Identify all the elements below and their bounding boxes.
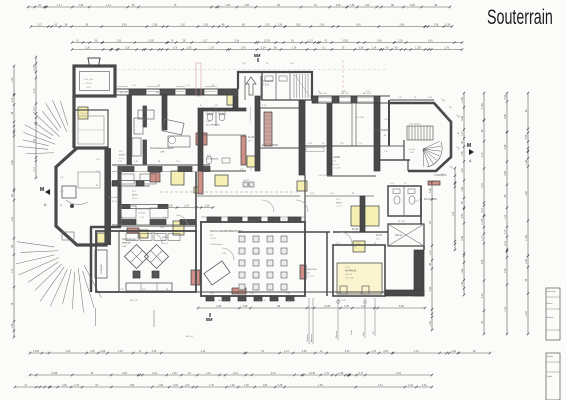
svg-text:2,14: 2,14	[233, 372, 238, 375]
svg-text:4,44: 4,44	[422, 384, 427, 387]
svg-text:2,14: 2,14	[261, 46, 266, 49]
svg-text:1,30: 1,30	[525, 311, 528, 316]
svg-text:1,17: 1,17	[380, 293, 384, 295]
svg-text:3,8 m²: 3,8 m²	[162, 242, 168, 245]
svg-text:2,17: 2,17	[481, 207, 484, 212]
svg-text:LH 2,60: LH 2,60	[138, 213, 146, 215]
svg-text:1,20: 1,20	[451, 350, 456, 353]
svg-text:1,63: 1,63	[163, 217, 167, 219]
svg-text:1,17: 1,17	[461, 131, 464, 136]
svg-text:2,14: 2,14	[33, 88, 36, 93]
svg-text:1,20: 1,20	[85, 46, 90, 49]
svg-text:1,63: 1,63	[78, 4, 83, 7]
svg-text:5,36: 5,36	[410, 4, 415, 7]
svg-text:2,17: 2,17	[336, 243, 340, 245]
svg-text:2,41: 2,41	[185, 384, 190, 387]
svg-text:63: 63	[360, 293, 362, 295]
svg-text:Nachbar: Nachbar	[547, 355, 554, 358]
svg-text:M: M	[467, 143, 471, 149]
svg-text:1,14: 1,14	[414, 350, 419, 353]
svg-text:36: 36	[60, 205, 62, 207]
svg-text:1,38: 1,38	[318, 384, 323, 387]
svg-text:Vertriebsaussendienst: Vertriebsaussendienst	[150, 147, 174, 150]
svg-text:1,63: 1,63	[461, 186, 464, 191]
svg-text:20 Personen: 20 Personen	[210, 243, 223, 246]
svg-text:1,20: 1,20	[96, 171, 100, 173]
svg-text:1,30: 1,30	[125, 46, 130, 49]
svg-text:7,5 %: 7,5 %	[263, 84, 270, 87]
svg-text:2,41: 2,41	[230, 219, 234, 221]
svg-text:Lieferschein: Lieferschein	[547, 290, 556, 293]
svg-text:L.H. 2,69: L.H. 2,69	[318, 175, 327, 177]
svg-text:BÜRO: BÜRO	[119, 154, 126, 157]
svg-text:3,38: 3,38	[11, 160, 14, 165]
svg-text:3,38: 3,38	[399, 23, 404, 26]
svg-text:2,17: 2,17	[504, 229, 507, 234]
svg-text:63: 63	[228, 105, 230, 107]
svg-text:1,14: 1,14	[342, 91, 346, 93]
svg-text:1,30: 1,30	[525, 159, 528, 164]
svg-text:5,36: 5,36	[461, 115, 464, 120]
svg-text:1,25: 1,25	[429, 321, 432, 326]
svg-text:1,30: 1,30	[504, 268, 507, 273]
svg-text:3,135: 3,135	[324, 305, 331, 308]
svg-text:2,36: 2,36	[153, 23, 158, 26]
svg-text:1,17: 1,17	[358, 143, 362, 145]
svg-text:1,14: 1,14	[106, 4, 111, 7]
svg-text:3,38: 3,38	[122, 23, 127, 26]
svg-text:Poststelle/22: Poststelle/22	[108, 196, 121, 199]
svg-text:2,17: 2,17	[60, 191, 64, 193]
svg-text:76: 76	[404, 183, 406, 185]
svg-text:1,25: 1,25	[187, 46, 192, 49]
svg-text:1,14: 1,14	[206, 372, 211, 375]
svg-text:1,25: 1,25	[152, 350, 157, 353]
svg-text:1,135: 1,135	[33, 64, 36, 71]
svg-text:2,14: 2,14	[152, 372, 157, 375]
svg-text:2,02: 2,02	[398, 39, 403, 42]
svg-text:2,17: 2,17	[33, 106, 36, 111]
svg-text:2,36: 2,36	[277, 23, 282, 26]
svg-text:HEIZUNG: HEIZUNG	[307, 269, 317, 271]
svg-text:3,135: 3,135	[309, 372, 316, 375]
svg-text:1,17: 1,17	[308, 39, 313, 42]
svg-text:FLUR/TREPPE: FLUR/TREPPE	[374, 130, 390, 132]
svg-text:1,14: 1,14	[284, 350, 289, 353]
svg-text:1,38 + 1,63: 1,38 + 1,63	[246, 221, 257, 223]
svg-text:1,25: 1,25	[225, 4, 230, 7]
svg-text:VORRAUM: VORRAUM	[434, 174, 446, 177]
svg-text:1,25: 1,25	[356, 243, 360, 245]
svg-text:2 AP: 2 AP	[160, 151, 165, 154]
svg-text:2,36: 2,36	[461, 235, 464, 240]
svg-text:BM: BM	[206, 317, 213, 322]
svg-text:1,51: 1,51	[117, 39, 122, 42]
svg-text:2,14: 2,14	[481, 152, 484, 157]
svg-text:1,38: 1,38	[428, 97, 432, 99]
svg-text:WC-HERREN: WC-HERREN	[206, 125, 220, 127]
svg-text:1,76: 1,76	[292, 46, 297, 49]
svg-text:1,76: 1,76	[209, 46, 214, 49]
svg-text:Architekt: Architekt	[547, 316, 554, 319]
svg-text:63: 63	[60, 163, 62, 165]
svg-text:1,76: 1,76	[461, 151, 464, 156]
svg-text:1,20: 1,20	[330, 193, 334, 195]
svg-text:3,135: 3,135	[481, 103, 484, 110]
svg-text:1,38: 1,38	[339, 372, 344, 375]
svg-text:4,44: 4,44	[271, 372, 276, 375]
svg-text:63: 63	[212, 85, 214, 87]
svg-text:Grün: Grün	[350, 329, 353, 335]
svg-text:2,63: 2,63	[310, 193, 314, 195]
svg-text:BH 1,17: BH 1,17	[156, 92, 164, 94]
svg-text:1,51: 1,51	[390, 183, 394, 185]
svg-text:4,44: 4,44	[452, 211, 455, 216]
svg-text:1,30: 1,30	[244, 384, 249, 387]
svg-text:3,38: 3,38	[244, 4, 249, 7]
svg-text:2,26: 2,26	[366, 91, 370, 93]
svg-text:2,02: 2,02	[429, 286, 432, 291]
svg-text:88: 88	[384, 135, 386, 137]
svg-text:3. Führerschein: 3. Führerschein	[249, 106, 252, 122]
svg-text:2,02: 2,02	[340, 143, 344, 145]
svg-text:1,63: 1,63	[525, 191, 528, 196]
svg-text:5,36: 5,36	[446, 23, 451, 26]
svg-text:1,25: 1,25	[214, 105, 218, 107]
svg-text:1,25: 1,25	[338, 293, 342, 295]
svg-text:1,38: 1,38	[172, 372, 177, 375]
svg-text:3,04: 3,04	[210, 293, 214, 295]
svg-text:WM/TR: WM/TR	[243, 180, 250, 182]
svg-text:1,38: 1,38	[11, 323, 14, 328]
svg-text:L.H. 2,69: L.H. 2,69	[332, 168, 341, 170]
svg-text:BH 1,35: BH 1,35	[218, 300, 226, 302]
svg-text:2,36: 2,36	[504, 144, 507, 149]
svg-text:M: M	[40, 187, 44, 193]
svg-text:1,17: 1,17	[203, 39, 208, 42]
svg-text:36: 36	[200, 105, 202, 107]
svg-text:+ OY,40: + OY,40	[408, 149, 416, 151]
svg-text:88: 88	[96, 185, 98, 187]
svg-text:4,93: 4,93	[429, 188, 432, 193]
svg-text:+ OY 40 - 1,38: + OY 40 - 1,38	[136, 209, 150, 211]
svg-text:C.H. 1,98: C.H. 1,98	[80, 113, 89, 115]
svg-text:1,17: 1,17	[57, 4, 62, 7]
svg-text:1,17: 1,17	[33, 166, 36, 171]
svg-text:2,36: 2,36	[203, 23, 208, 26]
svg-text:2,17: 2,17	[359, 372, 364, 375]
svg-text:2,36: 2,36	[205, 204, 210, 207]
svg-text:1,25: 1,25	[11, 77, 14, 82]
svg-text:1,14: 1,14	[282, 219, 286, 221]
svg-text:4,93: 4,93	[90, 350, 95, 353]
svg-text:BM: BM	[254, 53, 261, 58]
svg-text:1,20: 1,20	[230, 384, 235, 387]
svg-text:88: 88	[158, 85, 160, 87]
svg-text:Bauherr: Bauherr	[547, 302, 553, 305]
svg-text:Souterrain: Souterrain	[487, 5, 553, 28]
svg-text:3,135: 3,135	[51, 372, 58, 375]
svg-text:202 m²: 202 m²	[210, 237, 217, 240]
svg-text:+ OY IG: + OY IG	[84, 83, 92, 85]
svg-text:1,76: 1,76	[444, 46, 449, 49]
svg-text:51: 51	[250, 169, 252, 171]
svg-text:31,0 m²: 31,0 m²	[332, 163, 339, 166]
svg-text:1,76: 1,76	[209, 384, 214, 387]
svg-text:1,63: 1,63	[461, 268, 464, 273]
svg-text:2,02: 2,02	[461, 213, 464, 218]
svg-text:beamter: beamter	[122, 242, 131, 245]
svg-text:2,14: 2,14	[384, 151, 388, 153]
svg-text:-1,21: -1,21	[86, 87, 92, 89]
svg-text:2,02: 2,02	[336, 4, 341, 7]
svg-text:FLUR: FLUR	[248, 136, 255, 139]
svg-text:2,02: 2,02	[481, 259, 484, 264]
svg-text:2,63: 2,63	[296, 23, 301, 26]
svg-text:1,135: 1,135	[148, 39, 155, 42]
svg-text:3,38: 3,38	[216, 305, 221, 308]
svg-text:BÜRO: BÜRO	[162, 236, 169, 239]
svg-text:1,17: 1,17	[11, 268, 14, 273]
svg-text:1,25: 1,25	[118, 350, 123, 353]
svg-text:1,14: 1,14	[372, 46, 377, 49]
svg-text:4,44: 4,44	[481, 293, 484, 298]
svg-text:4,93: 4,93	[428, 39, 433, 42]
svg-text:1,25: 1,25	[361, 305, 366, 308]
svg-text:1,38: 1,38	[308, 143, 312, 145]
svg-text:3,38: 3,38	[434, 23, 439, 26]
svg-text:2,36: 2,36	[278, 384, 283, 387]
svg-text:88: 88	[158, 161, 160, 163]
svg-text:3,135: 3,135	[342, 39, 349, 42]
svg-text:1,35: 1,35	[206, 219, 210, 221]
svg-text:VORRAUM: VORRAUM	[207, 158, 218, 161]
svg-text:ELT: ELT	[373, 329, 375, 334]
svg-text:1,135: 1,135	[415, 46, 422, 49]
svg-text:4,93: 4,93	[101, 350, 106, 353]
svg-text:FLUR: FLUR	[352, 228, 359, 231]
svg-text:2,41: 2,41	[186, 85, 190, 87]
svg-text:BH 1,8: BH 1,8	[186, 336, 193, 338]
svg-text:2,02: 2,02	[122, 372, 127, 375]
svg-text:1,14: 1,14	[184, 204, 189, 207]
svg-text:C.H. 1,98: C.H. 1,98	[84, 79, 94, 81]
svg-text:1,135: 1,135	[33, 350, 40, 353]
svg-text:3,38: 3,38	[359, 46, 364, 49]
svg-text:1,63: 1,63	[263, 384, 268, 387]
svg-text:1,20: 1,20	[158, 384, 163, 387]
svg-text:1,51: 1,51	[350, 4, 355, 7]
svg-text:1,17: 1,17	[37, 23, 42, 26]
svg-text:1,38: 1,38	[173, 384, 178, 387]
svg-text:BÜRO: BÜRO	[132, 194, 139, 197]
svg-text:1,51: 1,51	[11, 216, 14, 221]
svg-text:WC-DAMEN: WC-DAMEN	[424, 198, 437, 201]
svg-text:88: 88	[352, 193, 354, 195]
svg-text:2,36: 2,36	[134, 161, 138, 163]
svg-text:63 m²: 63 m²	[132, 197, 137, 200]
svg-text:1,76: 1,76	[74, 384, 79, 387]
svg-text:13,1 m²: 13,1 m²	[352, 232, 359, 235]
svg-text:1,25: 1,25	[60, 177, 64, 179]
svg-text:Rampe: Rampe	[395, 235, 403, 237]
svg-text:1,14: 1,14	[118, 161, 122, 163]
svg-text:L.H. 2,99: L.H. 2,99	[355, 117, 365, 119]
svg-text:1,25: 1,25	[344, 305, 349, 308]
svg-text:BH 1,20: BH 1,20	[319, 93, 328, 95]
svg-text:1,25: 1,25	[525, 259, 528, 264]
svg-text:76: 76	[414, 97, 416, 99]
svg-text:SCHULUNG/BESPRECHUNG: SCHULUNG/BESPRECHUNG	[210, 230, 243, 233]
svg-text:1,76: 1,76	[324, 372, 329, 375]
svg-text:BH 1,20: BH 1,20	[363, 93, 372, 95]
svg-text:2,36: 2,36	[302, 350, 307, 353]
svg-text:2,36: 2,36	[286, 293, 290, 295]
svg-text:2,41: 2,41	[396, 372, 401, 375]
svg-text:76: 76	[322, 143, 324, 145]
svg-text:SCANNER: SCANNER	[100, 263, 103, 274]
svg-text:1,135: 1,135	[461, 97, 464, 104]
svg-text:BH 1,35: BH 1,35	[120, 92, 128, 94]
svg-text:93 m²: 93 m²	[119, 157, 124, 160]
svg-text:1,76: 1,76	[173, 46, 178, 49]
svg-text:2,14: 2,14	[234, 39, 239, 42]
svg-text:1,20: 1,20	[180, 23, 185, 26]
svg-text:16,8 m²: 16,8 m²	[345, 273, 352, 276]
svg-text:BH 1,20: BH 1,20	[288, 300, 296, 302]
svg-text:Telekom: Telekom	[307, 334, 309, 342]
svg-text:3,135: 3,135	[264, 39, 271, 42]
svg-text:63: 63	[258, 219, 260, 221]
svg-text:1,14: 1,14	[504, 214, 507, 219]
svg-text:2,14: 2,14	[11, 97, 14, 102]
svg-text:L.H. 2,48: L.H. 2,48	[345, 278, 354, 280]
svg-text:1 AP: 1 AP	[122, 245, 127, 248]
svg-text:1,17: 1,17	[481, 235, 484, 240]
svg-text:1,25: 1,25	[265, 23, 270, 26]
svg-text:1,14: 1,14	[201, 350, 206, 353]
svg-text:2,41: 2,41	[408, 384, 413, 387]
svg-text:2,02: 2,02	[142, 289, 146, 291]
svg-text:W 1,38: W 1,38	[398, 221, 405, 223]
svg-text:2,41: 2,41	[504, 240, 507, 245]
svg-text:2,02: 2,02	[504, 94, 507, 99]
svg-text:1,20: 1,20	[132, 85, 136, 87]
svg-text:1,14: 1,14	[504, 306, 507, 311]
svg-text:1,14: 1,14	[429, 250, 432, 255]
svg-text:2,14: 2,14	[140, 217, 144, 219]
svg-text:4,93: 4,93	[356, 23, 361, 26]
svg-text:1,63: 1,63	[384, 119, 388, 121]
svg-text:BH 1,20: BH 1,20	[341, 93, 350, 95]
svg-text:88: 88	[166, 289, 168, 291]
svg-text:17,6 m²: 17,6 m²	[307, 275, 314, 278]
svg-text:+ 0,17: + 0,17	[336, 206, 343, 208]
svg-text:FLUR: FLUR	[376, 235, 382, 237]
svg-text:2,63: 2,63	[383, 350, 388, 353]
svg-text:3,38: 3,38	[243, 305, 248, 308]
svg-text:1,76: 1,76	[371, 350, 376, 353]
svg-text:76: 76	[121, 217, 123, 219]
svg-text:1,30: 1,30	[461, 168, 464, 173]
svg-text:2,41: 2,41	[241, 46, 246, 49]
svg-text:2,63: 2,63	[504, 170, 507, 175]
svg-text:2,02: 2,02	[66, 350, 71, 353]
svg-text:76: 76	[266, 63, 268, 65]
svg-text:1,51: 1,51	[176, 161, 180, 163]
svg-text:2,36: 2,36	[345, 350, 350, 353]
svg-text:4,44: 4,44	[481, 183, 484, 188]
svg-text:Projekt: Projekt	[547, 375, 553, 378]
svg-text:EDV-TECHNIK: EDV-TECHNIK	[262, 144, 278, 147]
svg-text:4,93: 4,93	[62, 384, 67, 387]
svg-text:1,35: 1,35	[242, 63, 246, 65]
svg-text:1,76: 1,76	[120, 289, 124, 291]
svg-text:36: 36	[374, 243, 376, 245]
svg-text:2,41: 2,41	[96, 159, 100, 161]
svg-text:BÜRO: BÜRO	[336, 202, 343, 205]
svg-text:2,36: 2,36	[319, 23, 324, 26]
svg-text:2,41: 2,41	[378, 384, 383, 387]
svg-text:D+H: D+H	[206, 121, 211, 123]
svg-text:2,41: 2,41	[377, 39, 382, 42]
svg-text:4,93: 4,93	[129, 384, 134, 387]
svg-text:HA-RAUM: HA-RAUM	[345, 270, 356, 273]
svg-text:2,63: 2,63	[290, 63, 294, 65]
svg-text:1,135: 1,135	[481, 218, 484, 225]
svg-text:1.US 18/25,1: 1.US 18/25,1	[409, 124, 422, 126]
svg-text:1,135: 1,135	[525, 235, 528, 242]
svg-text:2,36: 2,36	[168, 204, 173, 207]
svg-text:5,36: 5,36	[504, 114, 507, 119]
svg-text:BH 1,35: BH 1,35	[130, 300, 138, 302]
svg-text:5,36: 5,36	[399, 305, 404, 308]
svg-text:BH 1,35: BH 1,35	[258, 300, 266, 302]
svg-text:2,26: 2,26	[240, 169, 244, 171]
svg-text:LAGER: LAGER	[332, 156, 340, 159]
svg-text:1,20: 1,20	[365, 4, 370, 7]
svg-text:51: 51	[318, 91, 320, 93]
svg-text:Wasser: Wasser	[335, 330, 338, 338]
svg-text:4,93: 4,93	[525, 134, 528, 139]
svg-text:1,76: 1,76	[461, 281, 464, 286]
svg-text:1,25: 1,25	[398, 97, 402, 99]
svg-text:1,38: 1,38	[250, 293, 254, 295]
svg-text:Antenne: Antenne	[310, 333, 313, 342]
svg-text:63 %: 63 %	[112, 201, 117, 203]
